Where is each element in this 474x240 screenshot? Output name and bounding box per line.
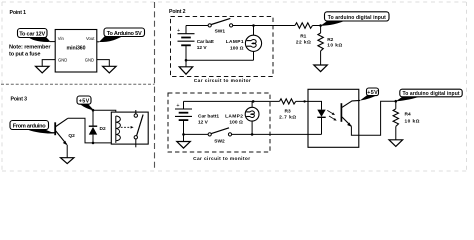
- svg-text:+5V: +5V: [79, 99, 90, 105]
- flag To arduino digital input A: [321, 12, 389, 26]
- svg-text:100 Ω: 100 Ω: [229, 120, 243, 126]
- flag +5V optocoupler: [360, 88, 379, 101]
- svg-text:GND: GND: [85, 57, 94, 62]
- battery B1: [177, 26, 195, 61]
- ground symbol left: [36, 66, 50, 73]
- junction dot R1 R2: [319, 24, 322, 27]
- resistor R4: [393, 109, 398, 127]
- resistor R2: [318, 33, 323, 51]
- wire R3 to LED anode: [296, 101, 322, 109]
- svg-text:R1: R1: [300, 33, 306, 39]
- svg-text:R2: R2: [327, 37, 333, 43]
- wire battery2 ground stem: [183, 134, 185, 141]
- svg-text:mini360: mini360: [67, 46, 86, 52]
- svg-text:To arduino digital input: To arduino digital input: [403, 91, 460, 97]
- junction dot lamp1 top: [252, 24, 255, 27]
- wire GND left: [42, 60, 55, 67]
- wire bottom return B1: [186, 59, 254, 61]
- svg-text:10 kΩ: 10 kΩ: [405, 118, 420, 124]
- flag +5V Point 3: [77, 96, 94, 110]
- dashed box car circuit A: [171, 17, 274, 77]
- svg-text:Point 3: Point 3: [11, 97, 28, 103]
- wire SW2 to lamp2 bottom and LED cathode: [232, 133, 322, 135]
- wire +5V to relay coil top: [94, 110, 116, 116]
- junction dot at +5V and D2: [92, 109, 95, 112]
- svg-text:Point 1: Point 1: [10, 10, 27, 16]
- ground symbol Q2 emitter: [61, 158, 74, 164]
- wire junction to R2: [320, 26, 322, 34]
- svg-text:LAMP2: LAMP2: [225, 114, 243, 120]
- svg-text:Car batt1: Car batt1: [198, 114, 219, 120]
- svg-text:100 Ω: 100 Ω: [230, 46, 244, 52]
- wire R2 to ground: [320, 51, 322, 65]
- wire top B2 to lamp2 and R3: [184, 100, 280, 102]
- battery B2: [175, 101, 192, 134]
- wire battery1 ground stem: [185, 60, 187, 67]
- wire collector to relay coil bottom: [68, 118, 116, 143]
- ground symbol R2: [314, 65, 328, 72]
- junction dot D2 bottom: [92, 142, 95, 145]
- ground symbol right: [103, 66, 117, 73]
- svg-text:to put a fuse: to put a fuse: [9, 51, 41, 57]
- svg-text:To car 12V: To car 12V: [19, 32, 45, 38]
- flag From arduino: [10, 121, 55, 134]
- svg-text:Point 2: Point 2: [169, 9, 186, 15]
- relay K1: [111, 110, 148, 147]
- label LAMP2 100 ohm: [225, 114, 243, 126]
- wire relay coil bottom stub: [115, 141, 117, 143]
- svg-text:D2: D2: [100, 126, 106, 132]
- svg-text:Car circuit to monitor: Car circuit to monitor: [194, 78, 251, 84]
- svg-text:SW1: SW1: [215, 28, 226, 34]
- svg-text:12 V: 12 V: [198, 120, 209, 126]
- svg-text:Note: remember: Note: remember: [9, 45, 51, 51]
- svg-text:GND: GND: [58, 57, 67, 62]
- wire GND right: [97, 60, 110, 67]
- wire R4 to ground: [395, 126, 397, 139]
- dashed box car circuit B: [168, 93, 270, 152]
- junction dot lamp2 bottom: [251, 133, 254, 136]
- svg-text:R4: R4: [405, 112, 411, 118]
- note text annotation: [9, 45, 51, 58]
- flag To Arduino 5V: [99, 28, 145, 42]
- svg-text:To arduino digital input: To arduino digital input: [328, 15, 386, 21]
- optocoupler U2 box: [308, 89, 359, 147]
- LED inside optocoupler: [317, 110, 325, 135]
- lamp LAMP1: [245, 35, 261, 51]
- svg-text:From arduino: From arduino: [13, 124, 47, 130]
- junction dot output node: [395, 100, 398, 103]
- wire R1 to junction: [313, 25, 321, 27]
- lamp LAMP2: [245, 101, 259, 134]
- switch SW1: [208, 18, 233, 27]
- svg-text:2.7 kΩ: 2.7 kΩ: [279, 114, 296, 120]
- svg-text:12 V: 12 V: [197, 45, 208, 51]
- ground symbol R4: [389, 140, 403, 147]
- wire Vout pin to flag: [97, 41, 100, 43]
- label R4 10 kohm: [405, 112, 420, 125]
- svg-text:10 kΩ: 10 kΩ: [327, 43, 342, 49]
- svg-text:Car circuit to monitor: Car circuit to monitor: [193, 156, 250, 162]
- wire emitter to output node: [351, 101, 395, 135]
- label R1 22 kohm: [296, 33, 311, 45]
- wire emitter to ground: [66, 145, 68, 158]
- label R3 2.7 kohm: [279, 108, 296, 120]
- svg-text:LAMP1: LAMP1: [226, 39, 244, 45]
- voltage regulator module mini360: [55, 30, 97, 73]
- svg-text:+5V: +5V: [367, 90, 378, 96]
- svg-text:22 kΩ: 22 kΩ: [296, 39, 311, 45]
- svg-text:Vin: Vin: [58, 36, 65, 41]
- wire battery to SW1: [186, 25, 208, 27]
- label LAMP1 100 ohm: [226, 39, 244, 52]
- ground symbol battery2: [177, 142, 191, 149]
- diode D2: [89, 110, 97, 143]
- junction dot before opto: [303, 100, 305, 102]
- phototransistor inside optocoupler: [341, 100, 360, 126]
- resistor R3: [280, 99, 296, 104]
- svg-text:R3: R3: [285, 108, 291, 114]
- switch SW2: [208, 128, 232, 136]
- svg-text:SW2: SW2: [214, 139, 225, 145]
- label R2 10 kohm: [327, 37, 342, 49]
- svg-text:Vout: Vout: [86, 36, 95, 41]
- wire lamp1 bottom stub: [253, 51, 255, 60]
- svg-text:Car batt: Car batt: [197, 39, 214, 45]
- flag To car 12V: [18, 29, 51, 42]
- ground symbol battery1: [179, 67, 193, 74]
- flag To arduino digital input B: [396, 89, 462, 101]
- wire lamp1 top stub: [253, 26, 255, 36]
- wire output node to R4: [395, 101, 397, 109]
- label Car batt1 12 V: [198, 114, 219, 126]
- wire flag to Vin pin: [50, 41, 55, 43]
- transistor Q2 NPN: [55, 118, 68, 145]
- label Car batt 12 V: [197, 39, 214, 51]
- svg-text:+: +: [177, 28, 180, 34]
- wire base lead: [50, 132, 55, 134]
- svg-text:Q2: Q2: [68, 133, 75, 139]
- svg-text:To Arduino 5V: To Arduino 5V: [107, 31, 142, 37]
- wire SW1 to lamp junction and out of box: [233, 25, 295, 27]
- svg-text:+: +: [176, 103, 179, 109]
- resistor R1: [295, 23, 313, 29]
- light arrows: [327, 110, 336, 120]
- junction dot lamp2 top: [252, 100, 255, 103]
- wire battery2 to SW2: [184, 133, 209, 135]
- junction dot battery1 bottom: [185, 59, 188, 62]
- junction dot battery2 bottom: [182, 133, 185, 136]
